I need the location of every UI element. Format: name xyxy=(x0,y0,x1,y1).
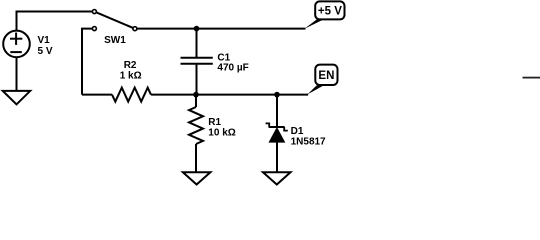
svg-text:V1: V1 xyxy=(38,35,51,46)
svg-text:10 kΩ: 10 kΩ xyxy=(208,127,235,138)
svg-text:1 kΩ: 1 kΩ xyxy=(120,70,142,81)
svg-text:R2: R2 xyxy=(124,60,137,71)
svg-text:470 µF: 470 µF xyxy=(217,63,248,74)
svg-text:EN: EN xyxy=(318,70,334,82)
svg-text:SW1: SW1 xyxy=(104,35,126,46)
svg-text:D1: D1 xyxy=(291,126,304,137)
svg-text:1N5817: 1N5817 xyxy=(291,137,326,148)
svg-text:+5 V: +5 V xyxy=(318,6,342,18)
svg-text:5 V: 5 V xyxy=(38,46,53,57)
